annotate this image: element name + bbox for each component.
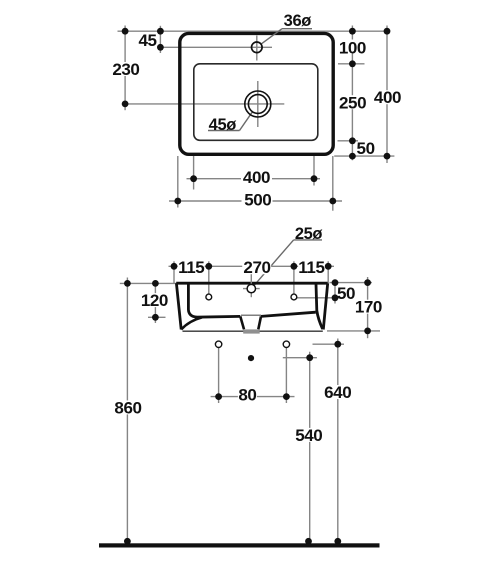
wire: deck ext line left y=283.4 <box>120 282 176 284</box>
svg-text:170: 170 <box>355 298 382 317</box>
wire: tick at 120 bottom y=317.3 <box>148 316 166 318</box>
wire: ext vertical from basin right x=332.8 <box>332 156 334 211</box>
svg-text:640: 640 <box>324 383 351 402</box>
leader 45ø: diagonal <box>240 112 253 131</box>
drain vertical centerline <box>257 81 259 127</box>
wire: fixing hole drop line left x=218.6 <box>218 348 220 404</box>
wire: vertical dim line 45 at x=160.4 <box>159 26 161 53</box>
tap hole 25ø vertical centerline <box>250 269 252 297</box>
wire: right dim line x=352.4 (100/250) <box>351 26 353 161</box>
wire: ext line y=344.2 to 640 <box>313 343 345 345</box>
wire: hole centerline ext y=297.8 <box>297 297 340 299</box>
wire: dim line 860 x=127.4 <box>126 278 128 542</box>
drain inner circle 45ø <box>248 95 267 114</box>
wire: dim line 115/270/115 y=266.3 <box>169 265 335 267</box>
svg-text:400: 400 <box>374 88 401 107</box>
basin elevation: bottom rear thin edge <box>183 330 323 332</box>
wire: ext vertical x=293.9 to right hole <box>293 261 295 294</box>
basin elevation: right wall outer edge <box>323 283 327 329</box>
svg-text:45: 45 <box>138 31 156 50</box>
wire: fixing hole drop line right x=286.4 <box>285 348 287 404</box>
wire: ext line y=357.7 to 540 <box>283 357 317 359</box>
dots (elevation dimension endpoints) <box>124 263 371 545</box>
svg-text:270: 270 <box>243 258 270 277</box>
wire: dim line 170 x=367.6 <box>367 277 369 338</box>
svg-text:540: 540 <box>295 426 322 445</box>
leader 25ø: diagonal <box>254 240 294 286</box>
wire: ext vertical from basin left x=177.8 <box>177 156 179 208</box>
leader 36ø: diagonal <box>261 29 282 44</box>
wire: top extension line y=31.2 <box>118 30 388 32</box>
svg-text:250: 250 <box>339 94 366 113</box>
wire: ext vertical x=174 <box>173 261 175 283</box>
wire: dim line 640 x=337.8 <box>337 339 339 542</box>
basin elevation: right wall inner edge <box>316 284 323 329</box>
basin elevation: left wall outer edge <box>176 283 181 329</box>
wire: ext vertical from bowl left x=193.6 <box>193 156 195 190</box>
tap hole 25ø circle <box>247 284 255 292</box>
side hole left <box>206 294 212 300</box>
svg-text:120: 120 <box>141 291 168 310</box>
basin elevation: interior bottom line right <box>261 312 316 316</box>
leader 45ø: underline <box>208 130 240 132</box>
basin elevation: drain cup left side <box>240 316 244 329</box>
svg-text:80: 80 <box>238 386 256 405</box>
wire: drain centerline horizontal y=103.9 <box>125 103 284 105</box>
tap hole 25ø horizontal centerline <box>243 288 260 290</box>
wire: ext vertical x=328.2 <box>327 261 329 283</box>
basin elevation: left wall inner edge <box>188 284 196 317</box>
wire: dim line 540 x=309.7 <box>309 352 311 542</box>
fixing hole left (open circle) <box>215 341 221 347</box>
svg-text:115: 115 <box>178 258 204 277</box>
text backgrounds (elevation) <box>114 260 383 442</box>
svg-text:860: 860 <box>114 398 141 417</box>
basin elevation: bottom-left front curve <box>181 317 202 329</box>
svg-text:400: 400 <box>243 168 270 187</box>
wire: tick at bowl top edge y=63.8 <box>338 63 365 65</box>
wire: dim line 50 x=335 <box>334 283 336 304</box>
wire: basin bottom ext y=330.9 <box>327 330 380 332</box>
wire: vertical dim line 230 at x=125.1 <box>124 26 126 111</box>
basin bowl inner edge (plan) <box>194 64 318 141</box>
basin elevation: deck top edge <box>176 282 327 285</box>
wire: ext vertical from bowl right x=314 <box>313 156 315 186</box>
drain outlet point (filled dot) <box>248 355 254 361</box>
svg-text:500: 500 <box>244 191 271 210</box>
basin elevation: drain cup top thin edge <box>241 314 261 316</box>
svg-text:25ø: 25ø <box>295 225 323 243</box>
drain outer circle <box>245 91 271 117</box>
wire: dim line 500 bottom y=201 <box>169 200 342 202</box>
wire: dim line 80 y=396.6 <box>211 396 295 398</box>
wire: dim line 400 bottom y=178.7 <box>187 178 321 180</box>
floor line <box>99 543 380 547</box>
text backgrounds (plan) <box>111 40 402 207</box>
svg-text:100: 100 <box>339 38 366 57</box>
svg-text:50: 50 <box>337 284 355 303</box>
wire: bottom extension line y=156.1 <box>334 155 394 157</box>
basin elevation: interior bottom line left <box>195 315 240 319</box>
dots (plan view dimension endpoints) <box>122 28 391 205</box>
labels (plan) <box>112 12 401 209</box>
svg-text:45ø: 45ø <box>209 116 237 134</box>
wire: right dim line x=387 (400) <box>386 26 388 164</box>
wire: dim line 120 x=155.4 <box>154 283 156 323</box>
faucet hole vertical centerline <box>256 36 258 61</box>
leader 36ø: underline <box>282 28 312 30</box>
side hole right <box>291 294 297 300</box>
basin outer rim (plan) <box>180 33 333 154</box>
svg-text:230: 230 <box>112 60 139 79</box>
drain outlet gray stub <box>243 329 260 333</box>
leader 25ø: underline <box>294 239 322 241</box>
wire: tick at bowl bottom edge y=140.8 <box>338 140 359 142</box>
fixing hole right (open circle) <box>283 341 289 347</box>
wire: faucet hole centerline horizontal y=47.3 <box>160 46 272 48</box>
wire: deck ext line right y=282.6 <box>330 282 373 284</box>
svg-text:36ø: 36ø <box>284 12 312 30</box>
faucet hole circle 36ø <box>251 42 262 53</box>
svg-text:115: 115 <box>298 258 324 277</box>
basin elevation: drain cup right side <box>258 316 261 329</box>
svg-text:50: 50 <box>357 139 375 158</box>
wire: ext vertical x=208.8 to left hole <box>208 261 210 294</box>
labels (elevation) <box>114 225 382 445</box>
